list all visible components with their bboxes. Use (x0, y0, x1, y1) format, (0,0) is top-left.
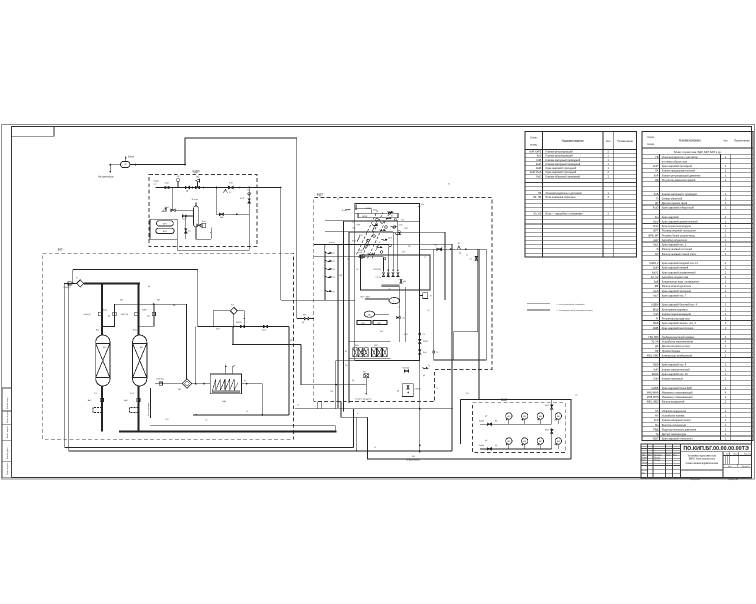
svg-text:фМ: фМ (403, 280, 406, 283)
svg-text:Рг: Рг (656, 317, 659, 321)
svg-text:КлПГ: КлПГ (240, 198, 245, 200)
receiver enclosure box (150, 219, 177, 239)
svg-text:ПР: ПР (655, 349, 659, 353)
valve KlZ on outlet (437, 248, 442, 251)
svg-text:Гребенка вентилей газовых: Гребенка вентилей газовых (662, 335, 695, 339)
svg-text:КшП: КшП (536, 162, 542, 166)
valve Sb on riser (475, 256, 477, 260)
condenser outlet arrow (241, 383, 262, 385)
svg-text:ОП6: ОП6 (404, 228, 408, 230)
wire upper left header (73, 269, 198, 326)
svg-text:Датчик температуры: Датчик температуры (662, 432, 687, 436)
svg-text:Кран шаровой поз. 7: Кран шаровой поз. 7 (662, 293, 687, 297)
air filter FV2 (551, 429, 553, 433)
svg-text:Устройство налива: Устройство налива (662, 414, 685, 418)
svg-text:В атм.: В атм. (329, 242, 335, 244)
line y=360 to dashed notch (434, 359, 487, 361)
svg-text:Фильтр-влагоотделитель: Фильтр-влагоотделитель (662, 284, 692, 288)
adsorber 2 bold riser (137, 283, 139, 335)
svg-text:Кран шаровой технологич.: Кран шаровой технологич. (662, 437, 694, 441)
filter F2 with bypass (230, 307, 237, 314)
svg-text:Кран шаровой управляемый: Кран шаровой управляемый (662, 270, 696, 274)
manifold 1 inlet valve (487, 423, 491, 425)
svg-text:МН5: МН5 (507, 441, 510, 443)
inner rect R1 (355, 204, 420, 361)
regeneration vent line with rotated text (150, 388, 152, 418)
right side lines inside BDT (433, 249, 435, 360)
svg-text:КдВ: КдВ (222, 401, 227, 403)
svg-text:БО: БО (58, 248, 63, 252)
svg-text:КМ1: КМ1 (355, 345, 359, 347)
svg-text:Примечание: Примечание (734, 139, 750, 143)
svg-text:Клапан измерительный: Клапан измерительный (662, 367, 690, 371)
svg-text:Т1: Т1 (424, 257, 426, 259)
relief valve PK (177, 181, 179, 187)
BAP manifold 2 (480, 448, 552, 450)
svg-text:Ресивер верхний технологич.: Ресивер верхний технологич. (662, 229, 697, 233)
adsorber A1 vessel (96, 335, 110, 386)
pressure gauges row 2 (506, 438, 512, 444)
svg-text:Клапан запорный с приводом: Клапан запорный с приводом (662, 192, 697, 196)
svg-text:Регулятор давления прямой: Регулятор давления прямой (662, 178, 696, 182)
BDT sensor horizontals upper (325, 220, 398, 222)
svg-text:КВ2: КВ2 (120, 300, 123, 302)
svg-text:Отбор и продувка: Отбор и продувка (355, 399, 372, 401)
bottom valves adsorber 1 (100, 398, 103, 401)
svg-text:БлО: БлО (653, 224, 658, 228)
svg-text:Устройство переключения: Устройство переключения (662, 340, 694, 344)
parts table 2 (642, 132, 753, 441)
svg-text:Схем.: Схем. (647, 135, 655, 139)
BDI main gas line (156, 187, 262, 189)
svg-text:А1, А2: А1, А2 (651, 275, 659, 279)
svg-text:Редуктор высокого давления: Редуктор высокого давления (662, 427, 697, 431)
inner rect R2 (344, 221, 420, 411)
svg-text:КТ1: КТ1 (332, 253, 335, 255)
svg-text:В атм: В атм (342, 210, 348, 212)
svg-text:РВ2: РВ2 (377, 323, 380, 325)
svg-text:Об: Об (427, 310, 429, 312)
valve DG (185, 186, 189, 188)
svg-text:БДИ: БДИ (193, 170, 201, 174)
svg-text:У1÷У4: У1÷У4 (375, 276, 381, 279)
thermo pocket Tz (224, 189, 228, 193)
parts table 1 (525, 132, 637, 258)
adsorber A2 vessel (133, 335, 147, 386)
svg-text:№ докум.: № докум. (654, 453, 662, 456)
svg-text:Блок — адсорбер с клапанами: Блок — адсорбер с клапанами (546, 212, 584, 216)
BDI right vent riser (248, 188, 250, 247)
svg-text:позиц.: позиц. (530, 144, 538, 147)
svg-text:Подп.: Подп. (666, 454, 671, 456)
svg-text:Сборник конденсата: Сборник конденсата (662, 409, 687, 413)
svg-text:Масса: Масса (734, 454, 739, 456)
svg-text:Кран шаровой поз. 9: Кран шаровой поз. 9 (662, 363, 687, 367)
svg-text:позиц.: позиц. (647, 143, 655, 146)
flow reg RU (163, 208, 167, 212)
svg-text:РВ1: РВ1 (361, 323, 364, 325)
svg-text:ВРБ: ВРБ (163, 231, 168, 233)
inlet filter F (77, 280, 84, 287)
svg-text:МН2: МН2 (523, 416, 526, 418)
line y=417.3 (341, 416, 367, 418)
svg-text:КлН: КлН (423, 352, 427, 354)
svg-text:Т.контр.: Т.контр. (642, 462, 649, 464)
adsorber 1 bold riser (101, 283, 103, 335)
svg-text:Огнепреградитель с датчиком: Огнепреградитель с датчиком (662, 155, 698, 159)
svg-text:Адсорбер осушки газа: Адсорбер осушки газа (662, 275, 689, 279)
svg-text:Клапан напорный: Клапан напорный (662, 377, 684, 381)
BDT verticals descending to collectors (335, 360, 337, 408)
long line y=408.8 (295, 408, 452, 410)
air filter FV1 (551, 405, 553, 409)
svg-text:ВРБ, ВР: ВРБ, ВР (649, 233, 659, 237)
line into condenser (155, 383, 182, 385)
svg-text:Блок клапанов сбросных: Блок клапанов сбросных (546, 195, 577, 199)
svg-text:КТ3: КТ3 (332, 269, 335, 271)
svg-text:МН3: МН3 (539, 416, 542, 418)
BDT extra inner rects top (355, 209, 371, 213)
wire BDI drop to dryer column feed (172, 188, 174, 211)
svg-text:КШВ: КШВ (366, 245, 371, 247)
svg-text:Кран шаровой входной поз.1,2: Кран шаровой входной поз.1,2 (662, 261, 699, 265)
svg-text:0б: 0б (337, 199, 339, 201)
svg-text:МН6: МН6 (523, 441, 526, 443)
svg-text:КлЗ: КлЗ (537, 154, 542, 158)
extra junction dots on mains (280, 187, 282, 189)
svg-text:Блок кранов шаровых: Блок кранов шаровых (662, 307, 689, 311)
svg-text:Схем.: Схем. (530, 136, 538, 140)
top-left stamp box (12, 126, 55, 136)
inlet line to filter (64, 282, 77, 284)
pressure regulator RD (197, 182, 199, 187)
valve T1a (396, 316, 400, 318)
svg-text:1кШ: 1кШ (358, 252, 362, 254)
svg-text:РД2: РД2 (339, 275, 342, 277)
svg-text:КЛ2: КЛ2 (402, 252, 405, 254)
BO dashed bottom vertical ticks (297, 318, 304, 320)
svg-text:РД: РД (655, 178, 659, 182)
svg-text:Клапан регулирующий: Клапан регулирующий (546, 154, 574, 158)
diagonal linkage lines (357, 211, 378, 255)
legend line 1 (527, 303, 550, 305)
svg-text:ГВ1÷ГВ4: ГВ1÷ГВ4 (373, 268, 381, 271)
valve KlV on BDI outlet (229, 186, 234, 189)
block BDT dashed boundary (314, 198, 492, 402)
valve KshV1 (98, 312, 101, 315)
BAP outer solid enclosure (460, 399, 462, 444)
svg-text:КШВ: КШВ (653, 326, 659, 330)
svg-text:АдО: АдО (653, 238, 658, 242)
svg-text:газ: газ (154, 184, 157, 186)
svg-text:КлВ: КлВ (654, 192, 659, 196)
block BlO (202, 223, 206, 227)
svg-text:Установка подготовки газа: Установка подготовки газа (688, 455, 717, 457)
svg-text:КлР: КлР (654, 173, 659, 177)
svg-text:Ф2: Ф2 (655, 252, 659, 256)
block BAP dashed boundary (473, 403, 566, 453)
svg-text:Кран шаровой проходной: Кран шаровой проходной (546, 166, 577, 170)
adsorber 2 bottom bold line (137, 386, 139, 432)
valve KShT on riser (248, 199, 250, 203)
collector header 1 (65, 447, 354, 449)
svg-text:Кран шаровой отбора проб: Кран шаровой отбора проб (662, 206, 695, 210)
svg-text:Г2: Г2 (398, 307, 400, 309)
svg-text:Кран шаровой вентиляции: Кран шаровой вентиляции (662, 326, 694, 330)
svg-text:Сб: Сб (655, 409, 659, 413)
svg-text:ПК, ПБ: ПК, ПБ (533, 195, 542, 199)
valves below bar (400, 279, 402, 283)
svg-text:Примечание: Примечание (617, 139, 633, 143)
svg-text:В атм.: В атм. (128, 157, 135, 159)
svg-text:— газ импульсный (пневмопитани: — газ импульсный (пневмопитание) (556, 309, 593, 312)
valve KiV (220, 213, 224, 215)
svg-text:Ф: Ф (656, 247, 658, 251)
svg-text:КшУ: КшУ (653, 220, 659, 224)
svg-text:КШ: КШ (412, 456, 415, 458)
svg-text:Затвор обратный: Затвор обратный (662, 196, 683, 200)
svg-text:КшР, КшЗ: КшР, КшЗ (530, 170, 542, 174)
valve KshP (165, 186, 170, 189)
svg-text:КМ2: КМ2 (374, 345, 378, 347)
svg-text:БДТ: БДТ (317, 192, 323, 196)
svg-text:в1: в1 (554, 420, 556, 422)
svg-text:Блоки: осушки газа, БДИ, БДТ,: Блоки: осушки газа, БДИ, БДТ, БАП и др. (674, 151, 722, 154)
svg-text:АШ: АШ (96, 329, 99, 332)
flare arrow bottom (419, 451, 421, 453)
air condenser KdV (210, 374, 241, 394)
svg-text:Тд: Тд (655, 432, 659, 436)
svg-text:В атм.: В атм. (192, 199, 199, 201)
svg-text:Кш: Кш (655, 215, 659, 219)
svg-text:КШ9: КШ9 (653, 363, 659, 367)
svg-text:Кран шаровой запорн. поз. 3: Кран шаровой запорн. поз. 3 (662, 321, 697, 325)
valve KSh9 cluster (405, 370, 409, 372)
svg-text:тЗ: тЗ (436, 388, 438, 390)
linkage nodes (361, 256, 363, 258)
condenser fans pipes (225, 365, 227, 374)
inner rect R5 (361, 255, 431, 290)
svg-text:КлО: КлО (536, 174, 541, 178)
svg-text:АШ2: АШ2 (133, 329, 137, 332)
title block (641, 444, 752, 478)
block BO dashed boundary (43, 253, 294, 439)
inner rect R3 (348, 231, 350, 233)
svg-text:п1: п1 (374, 447, 376, 449)
svg-text:БКШ: БКШ (653, 307, 659, 311)
svg-text:Лист: Лист (728, 466, 732, 468)
tick symbols on right lines (433, 351, 435, 353)
svg-text:Листов 1: Листов 1 (742, 466, 749, 468)
svg-text:Формат А1: Формат А1 (728, 478, 739, 481)
flare separator GV (121, 161, 130, 167)
svg-text:Пробоотборник: Пробоотборник (662, 349, 681, 353)
svg-text:ПБУ п КШУ: ПБУ п КШУ (360, 297, 371, 299)
valve KshU below column (182, 215, 193, 217)
svg-text:КшНБ: КшНБ (479, 445, 485, 447)
svg-text:ГВ: ГВ (655, 155, 658, 159)
svg-text:Взам. инв.№: Взам. инв.№ (6, 425, 9, 438)
BDT left entry lines (314, 244, 389, 246)
riser to BAP (478, 249, 480, 399)
svg-text:КшВ1,2: КшВ1,2 (650, 261, 659, 265)
manifold 2 inlet valve (487, 448, 491, 450)
svg-text:На сепарацию: На сепарацию (148, 402, 150, 416)
svg-text:КШП [3]: КШП [3] (121, 314, 129, 316)
svg-text:Кш7: Кш7 (653, 293, 659, 297)
svg-text:ФВ: ФВ (655, 284, 659, 288)
svg-text:о2: о2 (297, 405, 299, 407)
upper regeneration line (115, 303, 187, 305)
BDT extra circles (388, 212, 390, 214)
left vertical stamp strip (2, 388, 11, 478)
svg-text:А1, А2: А1, А2 (534, 212, 542, 216)
BDI solid collector box (177, 239, 249, 250)
svg-text:ВРТ: ВРТ (654, 229, 659, 233)
valve KshC2 (113, 312, 116, 315)
svg-text:КшП: КшП (165, 183, 170, 185)
svg-text:КШЗБ: КШЗБ (236, 322, 242, 324)
svg-text:РсУ2: РсУ2 (130, 393, 134, 395)
svg-text:пЗЮЛЗ: пЗЮЛЗ (415, 389, 421, 391)
svg-text:Т2: Т2 (466, 255, 468, 257)
svg-text:Утв.: Утв. (642, 472, 646, 474)
filter-separator FV diamond (182, 379, 192, 389)
svg-text:Клапан предохранительный: Клапан предохранительный (662, 169, 696, 173)
top-right vent Vn (419, 205, 421, 207)
BAP manifold 1 (480, 423, 552, 425)
svg-text:КТ2: КТ2 (332, 261, 335, 263)
main bold header after filter (84, 282, 140, 284)
svg-text:Тб: Тб (423, 334, 425, 336)
svg-text:Вр: Вр (148, 286, 150, 288)
svg-text:МН5-МН8: МН5-МН8 (647, 395, 659, 399)
svg-text:б: б (357, 413, 358, 415)
block BDI dashed boundary (149, 175, 257, 247)
bypass loop adsorber 2 (138, 304, 154, 326)
BDT long internal verticals upper (383, 258, 385, 269)
svg-text:Клапан запорный линии: Клапан запорный линии (662, 418, 691, 422)
svg-text:КТ4: КТ4 (332, 277, 335, 279)
svg-text:КшУ1: КшУ1 (652, 270, 659, 274)
svg-text:КшЗ: КшЗ (653, 289, 659, 293)
svg-text:Датчик контроля утечек: Датчик контроля утечек (662, 344, 691, 348)
ejector oval DK (364, 311, 374, 317)
svg-text:Прир.: Прир. (154, 180, 160, 182)
BDT verticals cluster to compressors (399, 287, 401, 342)
small rects row under DK (357, 321, 371, 325)
wire from R4 right to bottom area (451, 356, 453, 360)
thin line above bold collector (150, 425, 335, 427)
bold bottom collector of BO (119, 430, 336, 432)
svg-text:ДК: ДК (655, 344, 659, 348)
svg-text:КШ8: КШ8 (404, 334, 408, 336)
svg-text:КиП: КиП (654, 367, 659, 371)
svg-text:ПШ: ПШ (330, 391, 333, 393)
svg-text:Дата: Дата (673, 454, 677, 456)
receiver VRB (156, 228, 174, 233)
svg-text:КШБ4: КШБ4 (651, 303, 658, 307)
svg-text:КШ10: КШ10 (423, 341, 428, 343)
second riser (485, 249, 487, 360)
compressor frame lines (349, 341, 391, 343)
svg-text:на линии сброса газа: на линии сброса газа (662, 159, 688, 163)
svg-text:РШ2: РШ2 (352, 241, 356, 243)
svg-text:Кран шаровой блока БАП: Кран шаровой блока БАП (662, 386, 692, 390)
svg-text:МН7: МН7 (539, 441, 542, 443)
svg-text:Об: Об (575, 395, 577, 397)
svg-text:КШН: КШН (142, 310, 147, 312)
svg-text:ФВ1: ФВ1 (545, 404, 549, 407)
svg-text:Кран шаровой проходной: Кран шаровой проходной (546, 170, 577, 174)
receiver VRT (157, 221, 174, 226)
compressor group КМ2 (372, 348, 377, 357)
sensor valves column (326, 252, 332, 253)
svg-text:РШЗ: РШЗ (359, 250, 363, 252)
svg-text:РВД: РВД (653, 427, 658, 431)
left drop lines to collectors (63, 282, 66, 284)
svg-text:Адсорбер осушителя: Адсорбер осушителя (662, 238, 688, 242)
valve on line 326 (240, 325, 244, 328)
svg-text:Подп. и дата: Подп. и дата (7, 410, 9, 423)
svg-text:— газ осушенный товарный: — газ осушенный товарный (556, 303, 585, 306)
svg-text:КМ1, КМ2: КМ1, КМ2 (647, 353, 659, 357)
wire mid branch (215, 188, 217, 215)
BDT verticals to bottom lines (317, 402, 319, 409)
line across lower block (326, 384, 366, 386)
svg-text:Кран шаровой поз. 1: Кран шаровой поз. 1 (662, 243, 687, 247)
svg-text:Клапан регулирующий: Клапан регулирующий (546, 149, 574, 153)
svg-text:Конденсатор возд. охлаждения: Конденсатор возд. охлаждения (662, 280, 700, 284)
svg-text:Фильтр воздушный: Фильтр воздушный (662, 400, 685, 404)
solid diagonal ticks (363, 239, 368, 250)
tangent circle pair symbol (359, 255, 362, 258)
svg-text:Тр: Тр (247, 190, 249, 192)
svg-text:Клапан обратный затворный: Клапан обратный затворный (546, 174, 581, 178)
svg-text:ПК: ПК (655, 169, 659, 173)
wire from BDI line to center block (262, 188, 281, 301)
svg-text:Инв.№ дубл.: Инв.№ дубл. (6, 447, 9, 459)
arrow to flare header (109, 165, 111, 173)
svg-text:Манометр показывающий: Манометр показывающий (662, 395, 693, 399)
svg-text:КшВБ: КшВБ (479, 420, 485, 422)
svg-text:Компрессор мембранный: Компрессор мембранный (662, 353, 693, 357)
manifold bar (382, 285, 400, 287)
svg-text:КшП: КшП (653, 164, 659, 168)
collector header 2 (69, 450, 452, 452)
sheet outer border (2, 125, 755, 480)
valve KshO (171, 209, 175, 211)
svg-text:У1-У4: У1-У4 (651, 340, 659, 344)
svg-text:Кран шаровой проходной: Кран шаровой проходной (662, 164, 693, 168)
svg-text:Клапан запорный приводной: Клапан запорный приводной (546, 158, 581, 162)
flow meter symbol (458, 246, 461, 249)
svg-text:Клапан регулирующий давление: Клапан регулирующий давление (662, 173, 701, 177)
svg-text:Петров: Петров (654, 459, 660, 461)
svg-text:Блок осушителя воздуха: Блок осушителя воздуха (662, 224, 692, 228)
svg-text:Вн: Вн (422, 204, 425, 206)
feed line into BDT (281, 299, 355, 301)
svg-text:Кол: Кол (723, 140, 728, 143)
compressor group КМ1 (353, 348, 358, 357)
svg-text:Регулятор расхода газа: Регулятор расхода газа (662, 317, 690, 321)
svg-text:ГВ1-ГВ4: ГВ1-ГВ4 (649, 335, 659, 339)
bottom valves adsorber 2 (137, 398, 140, 401)
svg-text:Клапан запорный приводной: Клапан запорный приводной (546, 162, 581, 166)
svg-text:КдВ: КдВ (654, 280, 659, 284)
bent valve Td (422, 368, 428, 369)
wires inside BDI lower right (196, 227, 211, 239)
